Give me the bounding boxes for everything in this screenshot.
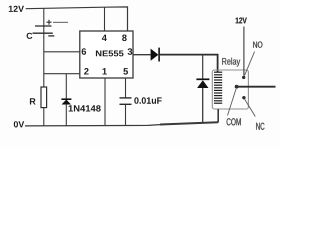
label 12V (relay supply)	[236, 18, 247, 24]
node NC contact dot	[242, 96, 245, 99]
wire 12V down to NO contact	[243, 27, 245, 76]
pin 2	[84, 68, 89, 75]
ground rail thick right part	[160, 122, 218, 124]
wire pin4 to top rail	[104, 7, 106, 31]
wire pin6 from bus to 555	[44, 51, 80, 53]
timer U1 NE555 box	[80, 31, 133, 78]
wire top rail from 12V to pin8	[26, 7, 128, 31]
label R	[30, 98, 36, 104]
diode D2 cathode bar	[158, 48, 160, 62]
capacitor C2 bottom plate	[120, 103, 132, 105]
node NO contact dot	[242, 76, 245, 79]
wire left bus capacitor to resistor	[43, 33, 45, 87]
pin 1	[103, 68, 107, 74]
wire diode D1 branch from pin2 wire	[65, 74, 67, 99]
label NC	[256, 123, 264, 130]
wire pin1 to ground rail	[104, 78, 106, 126]
pointer NO label to contact	[245, 52, 255, 76]
plus tail line	[53, 21, 68, 23]
wire pin3 output	[133, 54, 151, 56]
diode D1 1N4148 cathode bar	[61, 98, 71, 100]
label C	[27, 33, 33, 39]
diode D1 1N4148 triangle	[62, 100, 71, 105]
pin 6	[82, 48, 87, 55]
label 12V (left supply)	[9, 6, 24, 12]
ground rail 0V	[25, 122, 218, 126]
label 0.01uF	[134, 97, 161, 104]
relay coil stripes	[214, 72, 222, 103]
pin 3	[128, 48, 133, 55]
wire COM output	[237, 86, 276, 88]
label NO	[253, 42, 262, 48]
label Relay	[222, 58, 240, 67]
wire capacitor C2 to ground rail	[125, 105, 127, 126]
pin 4	[102, 35, 107, 41]
pointer NC label to contact	[245, 100, 256, 117]
wire flyback diode to ground rail	[202, 88, 204, 123]
wire resistor to ground rail	[43, 108, 45, 126]
diode D3 triangle	[197, 80, 208, 88]
label COM	[227, 118, 241, 125]
wire diode D1 to ground rail	[65, 104, 67, 126]
capacitor C2 top plate	[120, 97, 132, 99]
wire pin5 to capacitor C2	[125, 78, 127, 97]
pointer COM label to contact	[228, 89, 237, 116]
capacitor C bottom plate	[33, 32, 53, 34]
pin 5	[123, 68, 128, 75]
relay body box	[212, 70, 248, 109]
label 1N4148	[69, 105, 101, 111]
capacitor C top plate	[35, 25, 52, 27]
wire capacitor branch from top rail	[43, 8, 45, 33]
capacitor C plus sign	[47, 20, 52, 25]
resistor R body	[41, 87, 47, 108]
wire output diode to relay coil corner	[160, 55, 218, 72]
capacitor C minus sign	[48, 35, 54, 37]
label NE555	[96, 51, 124, 57]
diode D3 cathode bar	[196, 78, 209, 80]
diode D2 triangle	[151, 49, 159, 61]
wire flyback diode branch	[202, 55, 204, 79]
node COM contact dot	[235, 85, 239, 89]
wire pin2 from bus to 555	[44, 73, 80, 75]
wire coil bottom to ground rail	[217, 109, 219, 122]
pin 8	[122, 35, 127, 42]
label 0V	[14, 121, 24, 127]
